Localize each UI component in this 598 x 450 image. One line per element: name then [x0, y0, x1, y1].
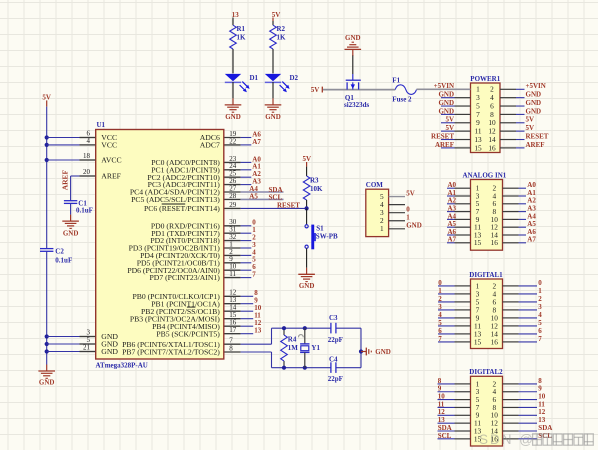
wire	[360, 328, 362, 368]
svg-text:7: 7	[438, 335, 442, 343]
svg-text:1: 1	[438, 287, 442, 295]
capacitor C2	[40, 248, 72, 265]
wire	[47, 351, 80, 353]
svg-text:AREF: AREF	[61, 169, 70, 190]
svg-text:GND: GND	[438, 107, 454, 115]
wire	[47, 144, 80, 146]
svg-text:GND: GND	[526, 107, 542, 115]
pin 13 PB1 (PCINT1/OC1A)	[224, 303, 240, 305]
svg-text:7: 7	[252, 271, 256, 279]
pin 32 PD2 (INT0/PCINT18)	[224, 240, 240, 242]
pin 20 AREF	[80, 175, 96, 177]
svg-text:A7: A7	[527, 236, 536, 244]
svg-text:DIGITAL2: DIGITAL2	[469, 368, 503, 376]
wire	[323, 89, 395, 91]
svg-text:SCL: SCL	[269, 193, 283, 201]
svg-text:GND: GND	[101, 347, 118, 356]
svg-text:0.1uF: 0.1uF	[76, 206, 93, 214]
svg-text:6: 6	[538, 327, 542, 335]
wire	[71, 175, 80, 177]
svg-text:U1: U1	[97, 121, 106, 129]
svg-text:1: 1	[538, 287, 542, 295]
svg-text:C2: C2	[55, 248, 64, 256]
svg-text:2: 2	[538, 295, 542, 303]
pin 4 VCC	[80, 144, 96, 146]
svg-text:A5: A5	[249, 192, 258, 200]
connector DIGITAL2	[471, 376, 503, 446]
svg-text:AVCC: AVCC	[101, 156, 121, 165]
junction	[305, 206, 309, 210]
svg-text:C4: C4	[329, 355, 338, 363]
resistor R3	[303, 176, 323, 200]
pin 27 PC4 (ADC4/SDA/PCINT12)	[224, 191, 240, 193]
svg-text:7: 7	[538, 335, 542, 343]
svg-text:C3: C3	[329, 314, 338, 322]
svg-text:GND: GND	[299, 282, 315, 290]
svg-text:8: 8	[229, 344, 233, 352]
wire	[272, 82, 274, 98]
svg-text:18: 18	[83, 152, 91, 160]
svg-text:5V: 5V	[526, 124, 535, 132]
svg-text:RESET: RESET	[277, 201, 300, 209]
pin 8 PB7 (PCINT7/XTAL2/TOSC2)	[224, 351, 240, 353]
svg-text:SDA: SDA	[538, 424, 552, 432]
svg-text:RESET: RESET	[526, 132, 549, 140]
capacitor C1	[64, 199, 93, 214]
pin 22 ADC7	[224, 144, 240, 146]
svg-text:R4: R4	[288, 336, 297, 344]
op-amp U1 body	[96, 130, 224, 360]
svg-text:A6: A6	[447, 228, 456, 236]
ground	[345, 34, 362, 56]
LED D2	[265, 74, 299, 93]
pin 25 PC2 (ADC2/PCINT10)	[224, 176, 240, 178]
svg-text:5V: 5V	[406, 190, 415, 198]
resistor R4	[281, 328, 304, 368]
wire	[47, 137, 80, 139]
transistor Q1	[344, 74, 370, 109]
svg-text:A4: A4	[447, 212, 456, 220]
ground	[225, 98, 242, 121]
svg-text:0: 0	[406, 206, 410, 214]
pin 12 PB0 (PCINT0/CLKO/ICP1)	[224, 295, 240, 297]
svg-text:12: 12	[438, 408, 446, 416]
svg-text:SW-PB: SW-PB	[316, 232, 338, 240]
svg-text:GND: GND	[526, 91, 542, 99]
wire	[336, 327, 361, 329]
svg-text:GND: GND	[406, 222, 422, 230]
svg-text:1M: 1M	[288, 344, 299, 352]
svg-text:5: 5	[538, 319, 542, 327]
pin 28 PC5 (ADC5/SCL/PCINT13)	[224, 198, 240, 200]
svg-text:4: 4	[438, 311, 442, 319]
svg-text:GND: GND	[438, 99, 454, 107]
svg-text:PC5 (ADC5/SCL/PCINT13): PC5 (ADC5/SCL/PCINT13)	[131, 195, 220, 204]
svg-text:10: 10	[538, 393, 546, 401]
ground	[62, 215, 79, 238]
wire	[232, 82, 234, 98]
svg-text:5V: 5V	[445, 116, 454, 124]
connector COM	[366, 189, 389, 236]
svg-text:5: 5	[438, 319, 442, 327]
ground	[265, 98, 282, 121]
svg-text:Y1: Y1	[311, 344, 320, 352]
svg-text:28: 28	[229, 192, 237, 200]
svg-text:AREF: AREF	[101, 172, 121, 181]
svg-text:1K: 1K	[277, 34, 287, 42]
svg-text:D2: D2	[290, 74, 299, 82]
svg-text:A6: A6	[527, 228, 536, 236]
svg-text:11: 11	[538, 400, 545, 408]
svg-text:A1: A1	[527, 189, 536, 197]
fuse F1	[392, 76, 416, 103]
svg-text:3: 3	[438, 303, 442, 311]
pin 10 PD6 (PCINT22/OC0A/AIN0)	[224, 269, 240, 271]
svg-text:29: 29	[229, 201, 237, 209]
wire	[417, 88, 471, 90]
svg-text:16: 16	[491, 337, 499, 346]
wire	[352, 56, 354, 75]
junction	[282, 326, 286, 330]
svg-text:R1: R1	[237, 25, 246, 33]
svg-text:A7: A7	[447, 236, 456, 244]
svg-text:11: 11	[438, 400, 445, 408]
svg-text:A0: A0	[447, 181, 456, 189]
wire	[46, 251, 48, 364]
pin 19 ADC6	[224, 137, 240, 139]
wire	[272, 18, 274, 22]
pin 16 PB4 (PCINT4/MISO)	[224, 325, 240, 327]
wire	[336, 367, 361, 369]
switch S1	[305, 225, 338, 250]
pin 1 PD3 (PCINT19/OC2B/INT1)	[224, 247, 240, 249]
svg-text:GND: GND	[375, 348, 391, 356]
connector ANALOG IN1	[471, 180, 503, 251]
svg-text:8: 8	[538, 377, 542, 385]
wire	[272, 367, 331, 369]
wire	[47, 159, 80, 161]
svg-text:0: 0	[438, 279, 442, 287]
svg-text:16: 16	[491, 238, 499, 247]
wire	[47, 343, 80, 345]
svg-text:+5VIN: +5VIN	[526, 82, 546, 90]
pin 3 GND	[80, 336, 96, 338]
svg-text:S1: S1	[316, 225, 324, 233]
svg-text:SCL: SCL	[438, 432, 452, 440]
svg-text:A5: A5	[447, 220, 456, 228]
svg-text:5V: 5V	[311, 86, 320, 94]
svg-text:POWER1: POWER1	[470, 75, 500, 83]
resistor R2	[270, 25, 286, 49]
svg-text:13: 13	[538, 416, 546, 424]
svg-text:4: 4	[538, 311, 542, 319]
junction	[45, 135, 49, 139]
svg-text:ADC7: ADC7	[200, 141, 220, 150]
svg-text:A4: A4	[527, 212, 536, 220]
junction	[359, 349, 363, 353]
svg-text:12: 12	[538, 408, 546, 416]
svg-text:F1: F1	[392, 76, 400, 84]
svg-text:17: 17	[229, 326, 237, 334]
svg-text:5V: 5V	[526, 116, 535, 124]
wire	[306, 208, 308, 224]
svg-text:A3: A3	[527, 205, 536, 213]
svg-text:GND: GND	[225, 113, 241, 121]
wire	[306, 200, 308, 208]
svg-text:0.1uF: 0.1uF	[55, 257, 72, 265]
svg-text:A1: A1	[447, 189, 456, 197]
crystal Y1	[300, 328, 320, 368]
svg-text:AREF: AREF	[526, 141, 545, 149]
svg-text:SDN @: SDN @	[479, 432, 535, 447]
pin 5 GND	[80, 343, 96, 345]
svg-text:A2: A2	[447, 197, 456, 205]
svg-text:15: 15	[474, 238, 482, 247]
svg-text:AREF: AREF	[435, 141, 454, 149]
svg-text:PB5 (SCK/PCINT5): PB5 (SCK/PCINT5)	[156, 329, 220, 338]
svg-text:7: 7	[229, 337, 233, 345]
svg-text:D1: D1	[250, 74, 259, 82]
svg-text:GND: GND	[63, 230, 79, 238]
LED D1	[225, 74, 259, 93]
svg-text:DIGITAL1: DIGITAL1	[469, 271, 503, 279]
wire	[47, 336, 80, 338]
svg-text:SDA: SDA	[438, 424, 452, 432]
svg-text:A2: A2	[527, 197, 536, 205]
svg-text:16: 16	[488, 143, 496, 152]
svg-text:GND: GND	[345, 34, 361, 42]
svg-text:2: 2	[438, 295, 442, 303]
svg-text:9: 9	[538, 385, 542, 393]
svg-text:GND: GND	[265, 113, 281, 121]
overline RESET	[162, 203, 186, 205]
capacitor C4	[328, 355, 343, 383]
svg-text:4: 4	[87, 137, 91, 145]
pin 18 AVCC	[80, 159, 96, 161]
svg-text:10K: 10K	[310, 185, 323, 193]
svg-text:SCL: SCL	[538, 432, 552, 440]
pin 23 PC0 (ADC0/PCINT8)	[224, 161, 240, 163]
pin 24 PC1 (ADC1/PCINT9)	[224, 169, 240, 171]
wire	[272, 327, 331, 329]
pin 7 PB6 (PCINT6/XTAL1/TOSC1)	[224, 343, 240, 345]
svg-text:PD7 (PCINT23/AIN1): PD7 (PCINT23/AIN1)	[150, 273, 221, 282]
wire	[46, 107, 48, 249]
wire	[70, 203, 72, 214]
svg-text:6: 6	[438, 327, 442, 335]
pin 14 PB2 (PCINT2/SS/OC1B)	[224, 310, 240, 312]
svg-text:PC6 (RESET/PCINT14): PC6 (RESET/PCINT14)	[144, 204, 220, 213]
svg-text:GND: GND	[526, 99, 542, 107]
svg-text:15: 15	[474, 337, 482, 346]
ground	[298, 268, 315, 290]
svg-text:20: 20	[83, 168, 91, 176]
svg-text:GND: GND	[438, 91, 454, 99]
svg-text:GND: GND	[39, 378, 55, 386]
svg-text:10: 10	[438, 393, 446, 401]
pin 26 PC3 (ADC3/PCINT11)	[224, 184, 240, 186]
pin 29 PC6 (RESET/PCINT14)	[224, 207, 240, 209]
svg-text:13: 13	[438, 416, 446, 424]
wire	[306, 167, 308, 176]
connector DIGITAL1	[471, 279, 503, 349]
svg-text:15: 15	[474, 143, 482, 152]
svg-text:1K: 1K	[237, 34, 247, 42]
svg-text:VCC: VCC	[101, 141, 117, 150]
svg-text:1: 1	[406, 214, 410, 222]
svg-text:21: 21	[83, 344, 91, 352]
svg-text:0: 0	[538, 279, 542, 287]
svg-text:ANALOG IN1: ANALOG IN1	[463, 171, 507, 179]
pin 31 PD1 (TXD/PCINT17)	[224, 232, 240, 234]
pin 6 VCC	[80, 137, 96, 139]
pin 9 PD5 (PCINT21/OC0B/T1)	[224, 262, 240, 264]
svg-text:RESET: RESET	[431, 132, 454, 140]
svg-text:5V: 5V	[445, 124, 454, 132]
ground	[38, 365, 55, 387]
svg-text:22: 22	[229, 137, 237, 145]
svg-text:R2: R2	[277, 25, 286, 33]
svg-text:22pF: 22pF	[328, 375, 343, 383]
resistor R1	[230, 25, 246, 49]
overline SS	[187, 306, 196, 308]
svg-text:13: 13	[254, 327, 262, 335]
svg-text:R3: R3	[310, 176, 319, 184]
pin 21 GND	[80, 351, 96, 353]
pin 17 PB5 (SCK/PCINT5)	[224, 333, 240, 335]
svg-text:A3: A3	[447, 205, 456, 213]
svg-text:8: 8	[438, 377, 442, 385]
svg-text:A7: A7	[252, 138, 261, 146]
svg-text:Fuse 2: Fuse 2	[392, 95, 412, 103]
wire	[232, 49, 234, 73]
svg-text:si2323ds: si2323ds	[344, 101, 370, 109]
connector POWER1	[471, 83, 501, 153]
pin 11 PD7 (PCINT23/AIN1)	[224, 277, 240, 279]
ground	[361, 348, 391, 356]
pin 2 PD4 (PCINT20/XCK/T0)	[224, 254, 240, 256]
svg-text:A5: A5	[527, 220, 536, 228]
svg-text:PB7 (PCINT7/XTAL2/TOSC2): PB7 (PCINT7/XTAL2/TOSC2)	[122, 348, 220, 357]
wire	[232, 18, 234, 26]
pin 30 PD0 (RXD/PCINT16)	[224, 225, 240, 227]
svg-text:1: 1	[380, 224, 384, 233]
svg-text:11: 11	[229, 270, 236, 278]
svg-text:A0: A0	[527, 181, 536, 189]
pin 15 PB3 (PCINT3/OC2A/MOSI)	[224, 318, 240, 320]
wire	[306, 248, 308, 267]
svg-text:22pF: 22pF	[328, 336, 343, 344]
svg-text:ATmega328P-AU: ATmega328P-AU	[96, 361, 148, 369]
wire	[272, 49, 274, 73]
svg-text:3: 3	[538, 303, 542, 311]
svg-text:9: 9	[438, 385, 442, 393]
capacitor C3	[328, 314, 343, 344]
svg-text:COM: COM	[366, 181, 384, 189]
